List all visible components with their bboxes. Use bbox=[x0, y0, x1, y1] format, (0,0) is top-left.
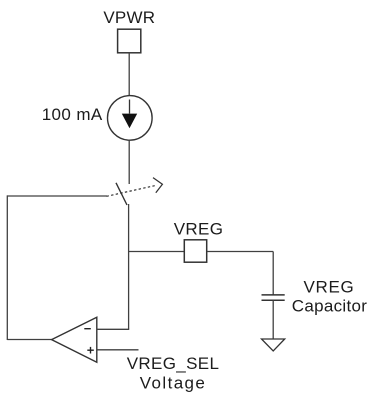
switch blade bbox=[116, 183, 127, 205]
wire feedback bottom bbox=[7, 339, 52, 341]
svg-text:VREG: VREG bbox=[304, 277, 355, 296]
wire VREG node right segment bbox=[207, 251, 274, 253]
wire feedback left bbox=[6, 195, 8, 340]
svg-text:VREG_SEL: VREG_SEL bbox=[127, 354, 220, 373]
wire inverting input bbox=[97, 328, 129, 330]
svg-text:Capacitor: Capacitor bbox=[292, 296, 367, 315]
wire non-inverting input stub bbox=[97, 349, 139, 351]
svg-text:VREG: VREG bbox=[174, 220, 224, 239]
wire capacitor to ground bbox=[272, 300, 274, 339]
svg-text:Voltage: Voltage bbox=[140, 374, 207, 393]
wire VREG node left segment bbox=[128, 251, 184, 253]
terminal VREG bbox=[184, 240, 206, 262]
capacitor C1 bbox=[262, 294, 285, 296]
wire to capacitor bbox=[272, 252, 274, 296]
wire current source to switch bbox=[128, 140, 130, 184]
wire feedback top bbox=[7, 195, 107, 197]
wire VPWR to current source bbox=[128, 53, 130, 114]
op-amp U1 bbox=[52, 317, 97, 362]
svg-text:VPWR: VPWR bbox=[103, 8, 155, 27]
svg-text:100 mA: 100 mA bbox=[42, 105, 103, 124]
switch control dashed arrow bbox=[107, 185, 157, 196]
ground bbox=[262, 339, 285, 351]
current source I1 bbox=[108, 96, 153, 141]
terminal VPWR bbox=[118, 29, 141, 53]
wire switch to VREG node bbox=[128, 204, 130, 329]
